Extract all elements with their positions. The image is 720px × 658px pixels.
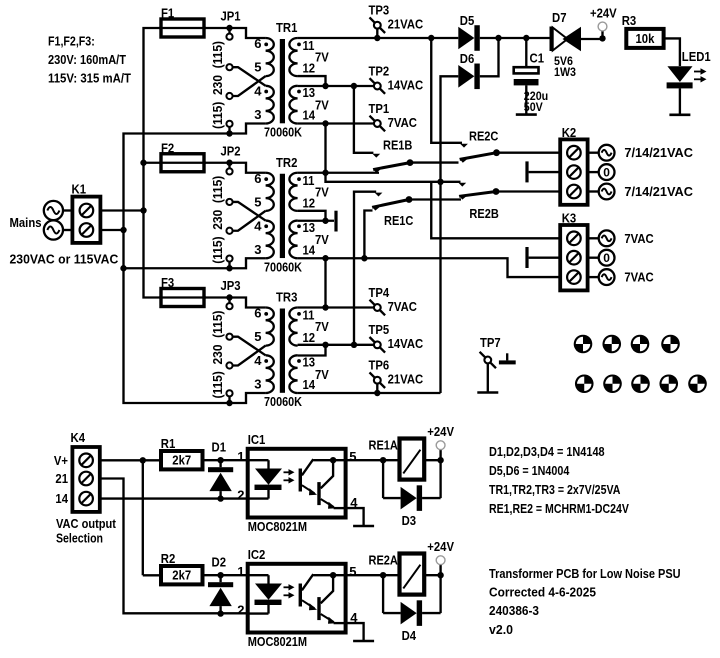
svg-text:14: 14 — [303, 242, 316, 257]
wire RE2B output to K2 bottom — [496, 190, 560, 192]
jumper header JP2 — [221, 143, 241, 271]
wire TR1 14VAC row — [298, 85, 374, 87]
value 70060K TR3 — [264, 394, 303, 409]
ac symbols and labels K3 — [589, 230, 654, 285]
junction 7VAC — [322, 120, 328, 126]
svg-text:3: 3 — [254, 242, 261, 257]
wire neutral bus from TR1 bottom to TR3 bottom — [124, 134, 230, 404]
wire TR2 pin14 to RE1C common — [364, 211, 372, 259]
label IC1 — [248, 432, 266, 447]
wire live bus from F1 down to F3 — [144, 28, 162, 298]
transformer TR2 secondary winding 11-12 — [289, 173, 301, 211]
tp TP4 — [369, 285, 418, 315]
svg-text:Corrected 4-6-2025: Corrected 4-6-2025 — [489, 585, 596, 600]
svg-text:4: 4 — [254, 84, 262, 99]
value MOC8021M IC2 — [248, 634, 307, 649]
svg-text:TR1,TR2,TR3 = 2x7V/25VA: TR1,TR2,TR3 = 2x7V/25VA — [489, 482, 621, 497]
wire IC1 pin5 to RE1A — [346, 457, 400, 463]
svg-text:D5: D5 — [460, 13, 475, 28]
svg-text:6: 6 — [254, 306, 261, 321]
wire fuse F3 to JP3 — [204, 296, 230, 298]
svg-text:D4: D4 — [402, 628, 417, 643]
transformer TR1 core — [280, 39, 285, 123]
svg-text:70060K: 70060K — [264, 259, 303, 274]
junction 14VAC b — [351, 83, 357, 89]
connector K1 (mains) — [44, 182, 101, 243]
svg-text:1W3: 1W3 — [554, 65, 576, 79]
value 70060K TR2 — [264, 259, 303, 274]
relay contact RE2C — [459, 129, 500, 163]
svg-text:2: 2 — [237, 488, 244, 503]
svg-text:F1: F1 — [161, 6, 174, 21]
svg-text:(115) 230 (115): (115) 230 (115) — [210, 41, 225, 129]
diode D5 — [458, 13, 479, 51]
junction neutral bus to TR2 bottom — [120, 265, 229, 271]
svg-text:TP5: TP5 — [369, 322, 390, 337]
svg-text:K3: K3 — [562, 211, 577, 226]
svg-text:70060K: 70060K — [264, 394, 303, 409]
resistor R3 — [622, 13, 664, 48]
svg-text:D7: D7 — [552, 10, 567, 25]
connector K3 — [560, 211, 587, 291]
svg-text:14VAC: 14VAC — [388, 336, 424, 351]
plate centre-tap marker at TR2 — [334, 211, 337, 232]
svg-text:5: 5 — [349, 449, 356, 464]
svg-text:TP6: TP6 — [369, 358, 390, 373]
svg-text:7V: 7V — [315, 50, 329, 65]
svg-text:2k7: 2k7 — [172, 453, 191, 468]
wire R2 to IC pin1 — [203, 574, 248, 576]
svg-text:7VAC: 7VAC — [624, 270, 654, 285]
svg-text:13: 13 — [303, 355, 316, 370]
svg-text:D3: D3 — [402, 513, 417, 528]
wire K4 V+ to R1 — [100, 459, 161, 461]
wire TR2 pin14 down to TR3 pin11 — [324, 258, 326, 307]
svg-text:RE2B: RE2B — [469, 206, 498, 221]
junction D6 join — [480, 35, 502, 77]
plate 0-net at K3 — [525, 247, 560, 268]
svg-text:12: 12 — [303, 195, 316, 210]
label (115) 230 (115) at JP2 — [210, 176, 225, 264]
label (115) 230 (115) at JP1 — [210, 41, 225, 129]
svg-text:K4: K4 — [71, 430, 86, 445]
svg-text:TP3: TP3 — [369, 3, 390, 18]
svg-text:RE2C: RE2C — [469, 129, 499, 144]
svg-text:7V: 7V — [315, 184, 329, 199]
svg-text:7V: 7V — [315, 319, 329, 334]
svg-text:12: 12 — [303, 61, 316, 76]
svg-text:RE1B: RE1B — [383, 138, 412, 153]
wire TR2 pin13 centre tap — [298, 220, 334, 222]
svg-text:Mains: Mains — [10, 215, 42, 230]
label TR3 — [276, 290, 297, 305]
junction V+ split — [140, 457, 160, 575]
jumper header JP3 — [221, 278, 241, 406]
jumper header JP1 — [221, 9, 241, 137]
svg-text:21VAC: 21VAC — [388, 372, 424, 387]
wire TR3 pin12 14VAC row — [298, 344, 374, 346]
svg-text:3: 3 — [254, 377, 261, 392]
wire JP2 to pin 6 — [230, 163, 266, 173]
transformer TR3 secondary winding 11-12 — [289, 308, 300, 346]
svg-text:1: 1 — [237, 449, 244, 464]
svg-text:TP2: TP2 — [369, 63, 390, 78]
wire TR3 pin11 row — [298, 306, 374, 308]
wire TR2 pin14 row — [298, 257, 441, 259]
wire fuse F2 to JP2 — [204, 162, 230, 164]
wire pin 3 to JP3 bottom — [230, 393, 266, 403]
svg-text:F2: F2 — [161, 140, 174, 155]
svg-text:5: 5 — [254, 194, 261, 209]
junction D6 feed on row 181.8 — [437, 179, 443, 185]
svg-text:K1: K1 — [72, 182, 87, 197]
wire 21VAC to RE2C fixed — [431, 38, 468, 148]
svg-text:11: 11 — [303, 38, 315, 53]
wire IC2 pin4 to ground — [346, 623, 375, 641]
svg-text:11: 11 — [303, 308, 315, 323]
relay contact RE1C — [372, 196, 414, 228]
note parts list — [489, 444, 629, 516]
pin numbers IC2 — [237, 564, 358, 625]
svg-text:2k7: 2k7 — [172, 568, 191, 583]
interior IC2 — [248, 572, 346, 624]
junction TR3 mid b — [351, 342, 357, 348]
svg-text:230VAC or 115VAC: 230VAC or 115VAC — [10, 252, 119, 267]
wire JP3 to pin 6 — [230, 298, 266, 308]
wire RE1B output to RE2C — [410, 161, 459, 163]
wire TR1 pin11 21VAC row — [298, 37, 459, 39]
svg-text:TR1: TR1 — [276, 20, 297, 35]
svg-text:4: 4 — [254, 353, 262, 368]
svg-text:115V: 315 mA/T: 115V: 315 mA/T — [48, 71, 131, 86]
transformer TR1 primary winding 6-5 — [264, 38, 273, 76]
transformer TR1 secondary winding 11-12 — [289, 38, 301, 76]
svg-text:MOC8021M: MOC8021M — [248, 519, 307, 534]
junction 14VAC a — [322, 83, 328, 89]
svg-text:12: 12 — [303, 330, 316, 345]
junction TR3 mid a — [322, 342, 328, 348]
svg-text:IC1: IC1 — [248, 432, 266, 447]
label TR1 — [276, 20, 297, 35]
relay coil RE1A — [369, 438, 425, 480]
transformer TR2 primary winding 6-5 — [264, 173, 273, 211]
svg-text:230V: 160mA/T: 230V: 160mA/T — [48, 52, 126, 67]
svg-text:13: 13 — [303, 220, 316, 235]
relay coil RE2A — [369, 553, 425, 595]
svg-text:F1,F2,F3:: F1,F2,F3: — [48, 33, 95, 48]
svg-text:7VAC: 7VAC — [388, 115, 418, 130]
svg-text:TP1: TP1 — [369, 101, 390, 116]
diode D3 — [383, 460, 441, 528]
svg-text:14VAC: 14VAC — [388, 77, 424, 92]
svg-text:70060K: 70060K — [264, 125, 303, 140]
tp TP2 — [369, 63, 424, 93]
wire RE2C output to K2 top — [497, 152, 561, 154]
svg-text:R2: R2 — [161, 551, 176, 566]
wire R3 to LED1 — [664, 38, 680, 66]
pin labels TR3 — [254, 306, 329, 393]
fiducial mounting marks — [574, 335, 707, 393]
svg-text:D6: D6 — [460, 51, 475, 66]
wire TR3 pin14 21VAC row — [298, 392, 441, 394]
svg-text:D1,D2,D3,D4 = 1N4148: D1,D2,D3,D4 = 1N4148 — [489, 444, 605, 459]
svg-text:RE1C: RE1C — [384, 213, 414, 228]
wire coil to +24V — [424, 457, 444, 463]
svg-text:Selection: Selection — [56, 531, 103, 546]
note title block — [489, 566, 681, 637]
svg-text:TP4: TP4 — [369, 285, 390, 300]
svg-text:11: 11 — [303, 173, 315, 188]
tp TP5 — [369, 322, 424, 352]
junction neutral bus to K1 bottom — [101, 227, 127, 233]
svg-text:D2: D2 — [212, 555, 227, 570]
relay contact RE2B — [459, 188, 500, 221]
svg-text:LED1: LED1 — [682, 49, 711, 64]
tp TP7 — [477, 335, 500, 393]
svg-text:v2.0: v2.0 — [489, 622, 513, 637]
svg-text:10k: 10k — [636, 31, 656, 46]
svg-text:7VAC: 7VAC — [388, 299, 418, 314]
svg-text:F3: F3 — [161, 275, 174, 290]
diode D1 — [208, 440, 233, 502]
supply +24V RE2A — [427, 539, 454, 575]
label VAC output Selection — [56, 516, 117, 546]
junction 21VAC to RE2C feed — [428, 35, 434, 41]
svg-text:TP7: TP7 — [480, 335, 501, 350]
wire K4 21 down to IC2 pin2 — [100, 479, 248, 614]
junction TR3 pin11 — [322, 304, 328, 310]
svg-text:JP2: JP2 — [221, 143, 241, 158]
svg-text:RE2A: RE2A — [369, 553, 399, 568]
svg-text:6: 6 — [254, 171, 261, 186]
label IC2 — [248, 547, 266, 562]
crossover 230/115 selector JP1 — [233, 67, 266, 96]
svg-text:+24V: +24V — [590, 6, 617, 21]
transformer TR1 primary winding 4-3 — [264, 86, 274, 124]
connector K2 — [560, 125, 587, 205]
wire IC1 pin4 to ground — [346, 508, 375, 526]
svg-text:(115) 230 (115): (115) 230 (115) — [210, 311, 225, 399]
wire 21VAC(TR3 pin14) up to D6 — [441, 76, 459, 393]
wire pin 3 to JP1 bottom — [230, 124, 266, 134]
svg-text:4: 4 — [254, 218, 262, 233]
wire row181.8 down to K3 top — [431, 182, 560, 239]
svg-text:IC2: IC2 — [248, 547, 266, 562]
svg-text:D1: D1 — [212, 440, 227, 455]
svg-text:R3: R3 — [622, 13, 637, 28]
svg-text:3: 3 — [254, 107, 261, 122]
svg-text:2: 2 — [237, 603, 244, 618]
svg-text:K2: K2 — [562, 125, 577, 140]
wire TR2 pin14 jog to K3 bottom — [441, 258, 561, 277]
supply +24V RE1A — [427, 424, 454, 460]
wire TR1 7VAC down to TR2 pin11 — [324, 124, 326, 173]
value MOC8021M IC1 — [248, 519, 307, 534]
svg-text:21: 21 — [55, 471, 68, 486]
pin numbers IC1 — [237, 449, 358, 510]
wire TR2 pin11 net along row 181.8 — [326, 173, 467, 187]
fuse F3 — [159, 275, 206, 307]
connector K4 — [71, 430, 100, 512]
resistor R2 — [161, 551, 203, 584]
svg-text:TR2: TR2 — [276, 155, 297, 170]
svg-text:7V: 7V — [315, 97, 329, 112]
optocoupler IC1 — [248, 449, 346, 518]
svg-text:Transformer PCB for Low Noise: Transformer PCB for Low Noise PSU — [489, 566, 681, 581]
junction TR2 pin14 a — [322, 255, 328, 261]
transformer TR2 core — [280, 174, 285, 258]
tp TP3 — [369, 3, 424, 42]
wire TR2 pin12 jog — [298, 211, 326, 221]
wire TR2 pin11 row to RE1B common — [298, 172, 379, 174]
svg-text:JP3: JP3 — [221, 278, 241, 293]
svg-text:7V: 7V — [315, 367, 329, 382]
svg-text:MOC8021M: MOC8021M — [248, 634, 307, 649]
pin labels TR1 — [254, 36, 329, 123]
fuse F2 — [159, 140, 206, 172]
svg-text:7/14/21VAC: 7/14/21VAC — [624, 145, 693, 160]
svg-text:+24V: +24V — [427, 424, 454, 439]
wire K4 14 to IC1 pin2 — [100, 497, 248, 499]
svg-text:JP1: JP1 — [221, 9, 241, 24]
wire IC2 pin5 to RE2A — [346, 572, 400, 578]
svg-text:50V: 50V — [524, 100, 544, 114]
svg-text:7/14/21VAC: 7/14/21VAC — [624, 184, 693, 199]
value 70060K TR1 — [264, 125, 303, 140]
relay contact RE1B — [373, 138, 414, 173]
capacitor C1 — [514, 38, 549, 115]
wire TR3 pin13 jog — [298, 345, 326, 356]
resistor R1 — [161, 436, 203, 469]
svg-text:0: 0 — [603, 165, 610, 179]
svg-text:240386-3: 240386-3 — [489, 603, 539, 618]
labels K4 pins — [54, 453, 69, 506]
led LED1 — [667, 49, 711, 115]
svg-text:+24V: +24V — [427, 539, 454, 554]
wire TR1 pin12 to 14VAC row — [298, 76, 326, 86]
tp TP6 — [369, 358, 424, 397]
svg-text:R1: R1 — [161, 436, 176, 451]
svg-text:14: 14 — [303, 377, 316, 392]
wire fuse F1 to JP1 — [204, 27, 230, 29]
transformer TR2 secondary winding 13-14 — [289, 221, 301, 259]
transformer TR1 secondary winding 13-14 — [289, 86, 301, 124]
wire TR3 14VAC to RE1C fixed — [354, 192, 382, 345]
diode D4 — [383, 575, 441, 643]
label (115) 230 (115) at JP3 — [210, 311, 225, 399]
plate 0-net at TP7 — [499, 353, 516, 364]
svg-text:C1: C1 — [530, 51, 545, 66]
fuse F1 — [159, 6, 206, 38]
plate 0-net at K2 — [525, 161, 560, 182]
wire pin 3 to JP2 bottom — [230, 258, 266, 268]
junction C1 tap — [523, 35, 529, 41]
wire RE1C output to RE2B — [409, 198, 461, 200]
wire JP1 to pin 6 — [230, 28, 266, 38]
crossover 230/115 selector JP3 — [233, 337, 266, 366]
svg-text:(115) 230 (115): (115) 230 (115) — [210, 176, 225, 264]
svg-text:21VAC: 21VAC — [388, 17, 424, 32]
svg-text:RE1A: RE1A — [369, 438, 399, 453]
wire 14VAC to RE1B fixed — [354, 86, 380, 158]
svg-text:14: 14 — [55, 491, 68, 506]
ac symbols and labels K2 — [589, 145, 694, 200]
wire coil to +24V — [424, 572, 444, 578]
wire TR1 pin14 7VAC row — [298, 122, 374, 124]
svg-text:TR3: TR3 — [276, 290, 297, 305]
svg-text:5: 5 — [254, 60, 261, 75]
label TR2 — [276, 155, 297, 170]
transformer TR3 core — [280, 309, 285, 393]
svg-text:VAC output: VAC output — [56, 516, 117, 531]
junction TR2 pin14 b — [361, 255, 367, 261]
svg-text:V+: V+ — [54, 453, 68, 468]
tp TP1 — [369, 101, 418, 131]
svg-text:7V: 7V — [315, 232, 329, 247]
svg-text:6: 6 — [254, 36, 261, 51]
pin labels TR2 — [254, 171, 329, 258]
svg-text:5: 5 — [254, 329, 261, 344]
svg-text:13: 13 — [303, 85, 316, 100]
junction live bus to K1 top — [101, 207, 147, 213]
label 230VAC or 115VAC — [10, 252, 119, 267]
supply +24V top — [590, 6, 617, 42]
label Mains — [10, 215, 42, 230]
svg-text:D5,D6 = 1N4004: D5,D6 = 1N4004 — [489, 463, 570, 478]
crossover 230/115 selector JP2 — [233, 202, 266, 231]
wire R1 to IC pin1 — [203, 459, 248, 461]
transformer TR2 primary winding 4-3 — [264, 221, 274, 259]
svg-text:0: 0 — [603, 251, 610, 265]
transformer TR3 secondary winding 13-14 — [289, 355, 301, 393]
junction centre tap — [322, 218, 328, 224]
svg-text:RE1,RE2 = MCHRM1-DC24V: RE1,RE2 = MCHRM1-DC24V — [489, 501, 629, 516]
wire D5 cathode to D7 — [480, 37, 550, 39]
svg-text:1: 1 — [237, 564, 244, 579]
svg-text:14: 14 — [303, 108, 316, 123]
interior IC1 — [248, 457, 346, 509]
transformer TR3 primary winding 6-5 — [264, 308, 274, 346]
diode D6 — [458, 51, 479, 89]
svg-text:7VAC: 7VAC — [624, 231, 654, 246]
transformer TR3 primary winding 4-3 — [264, 355, 274, 393]
optocoupler IC2 — [248, 564, 346, 633]
junction TR2 pin11 — [322, 170, 328, 176]
diode D2 — [208, 555, 233, 617]
note F1,F2,F3 fuse ratings — [48, 33, 131, 85]
svg-text:5: 5 — [349, 564, 356, 579]
zener diode D7 — [550, 10, 603, 79]
junction live bus to F2 — [140, 160, 161, 166]
